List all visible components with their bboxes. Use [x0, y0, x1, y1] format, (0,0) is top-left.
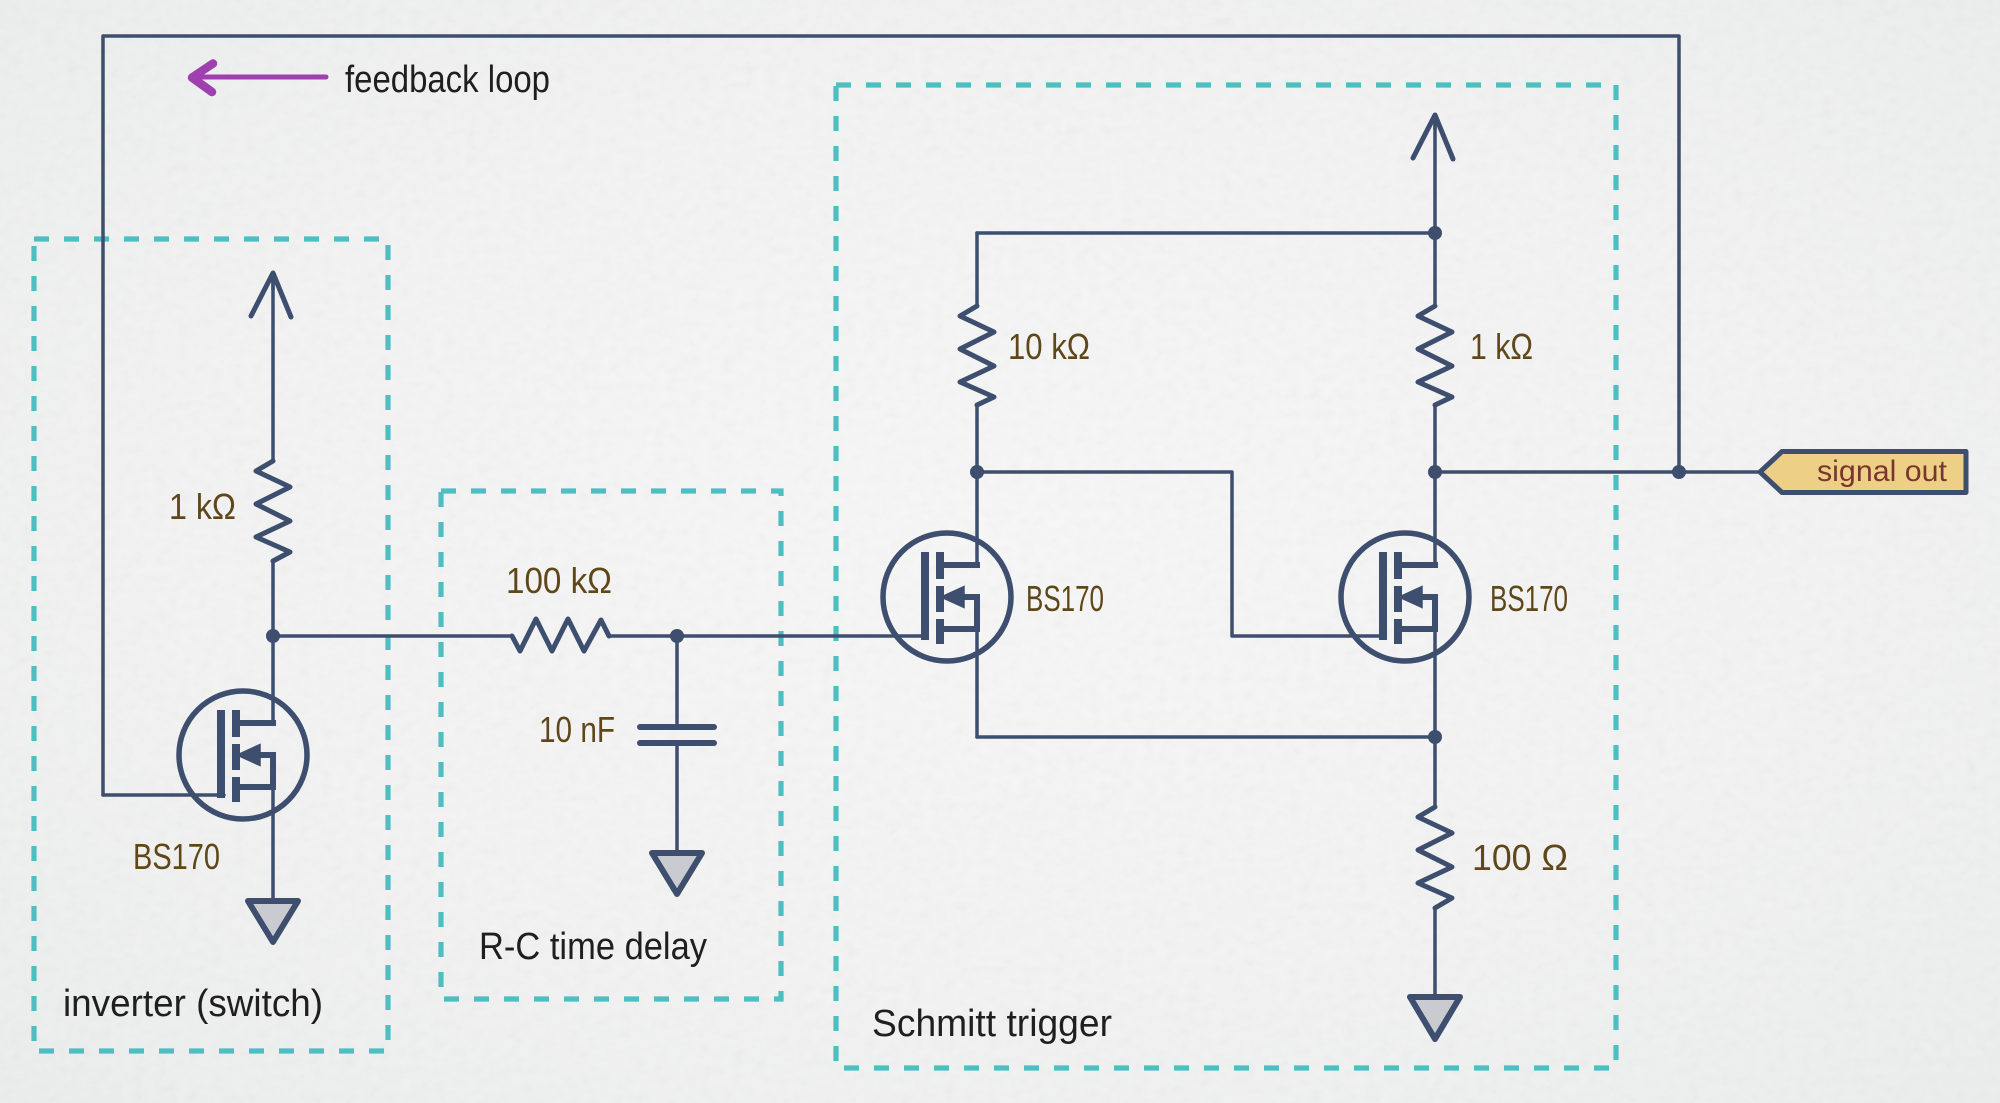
resistor 10 kΩ (Schmitt left): [960, 306, 994, 405]
resistor 1 kΩ (Schmitt right): [1418, 306, 1452, 405]
wire: M1 drain vertical: [975, 472, 979, 565]
wire: RC node to Schmitt gate 1: [677, 634, 922, 638]
resistor 100 Ω (Schmitt source): [1418, 807, 1452, 908]
svg-text:R-C time delay: R-C time delay: [479, 926, 707, 968]
svg-text:BS170: BS170: [1026, 578, 1104, 619]
wire: M2 source to 100R: [1433, 629, 1437, 807]
svg-text:10 nF: 10 nF: [539, 709, 615, 750]
wire: output node to signal out flag: [1435, 470, 1760, 474]
dashed box: Schmitt trigger: [836, 85, 1616, 1068]
resistor 100 kΩ (RC): [512, 619, 609, 651]
transistor BS170 (Schmitt M2): [1341, 533, 1469, 661]
svg-text:signal out: signal out: [1817, 455, 1948, 488]
wire: inverter resistor to drain: [271, 561, 275, 723]
svg-text:BS170: BS170: [133, 836, 220, 877]
capacitor 10 nF plates: [640, 727, 714, 743]
wire: RC resistor to cap node: [609, 634, 677, 638]
svg-text:Schmitt trigger: Schmitt trigger: [872, 1003, 1112, 1045]
wire: inverter VCC shaft: [271, 276, 275, 461]
wire: node A horizontal (inverter out to RC): [273, 634, 512, 638]
wire: 100R to ground: [1433, 908, 1437, 996]
wire: gate feed to inverter MOSFET: [103, 793, 224, 797]
junction: Schmitt VCC node: [1428, 226, 1442, 240]
junction: common source node: [1428, 730, 1442, 744]
svg-text:1 kΩ: 1 kΩ: [169, 486, 236, 527]
svg-text:feedback loop: feedback loop: [345, 59, 550, 101]
power arrow VCC (inverter): [251, 273, 291, 317]
wire: M2 drain vertical: [1433, 472, 1437, 565]
power arrow shaft tip (Schmitt): [1433, 115, 1437, 130]
signal out flag: [1760, 452, 1966, 493]
power arrow shaft tip (inverter): [271, 273, 275, 290]
svg-text:100 Ω: 100 Ω: [1472, 837, 1568, 878]
wire: M1 source vertical: [975, 629, 979, 737]
svg-text:100 kΩ: 100 kΩ: [506, 560, 612, 601]
transistor BS170 (inverter): [179, 691, 307, 819]
resistor 1 kΩ (inverter pull-up): [256, 461, 290, 561]
wire: cap bottom lead to ground: [675, 745, 679, 851]
wire: 1k branch upper: [1433, 233, 1437, 306]
junction: RC cap node: [670, 629, 684, 643]
svg-text:10 kΩ: 10 kΩ: [1008, 326, 1090, 367]
wire: 10k branch upper: [975, 233, 979, 306]
ground (inverter): [248, 901, 298, 942]
junction: M1 drain node: [970, 465, 984, 479]
ground (Schmitt): [1410, 997, 1460, 1039]
svg-text:inverter (switch): inverter (switch): [63, 983, 323, 1025]
transistor BS170 (Schmitt M1): [883, 533, 1011, 661]
wire: Schmitt top bus: [977, 231, 1435, 235]
wire: feedback loop top rail: [103, 36, 1679, 795]
wire: inverter source to ground: [271, 787, 275, 900]
svg-text:1 kΩ: 1 kΩ: [1470, 326, 1533, 367]
dashed box: inverter (switch): [34, 239, 388, 1051]
wire: cross-coupling from drain1 to gate2: [977, 472, 1381, 636]
wire: cap top lead: [675, 636, 679, 723]
wire: 1k branch lower to output node: [1433, 405, 1437, 472]
junction: inverter output node: [266, 629, 280, 643]
dashed box: R-C time delay: [441, 491, 781, 999]
feedback arrow (purple): [192, 64, 326, 93]
wire: Schmitt VCC shaft: [1433, 118, 1437, 233]
wire: 10k branch lower to drain node: [975, 405, 979, 472]
power arrow VCC (Schmitt): [1413, 115, 1453, 159]
junction: output node: [1428, 465, 1442, 479]
wire: common source bus: [977, 735, 1435, 739]
ground (RC): [652, 853, 702, 894]
junction: feedback tap node: [1672, 465, 1686, 479]
svg-text:BS170: BS170: [1490, 578, 1568, 619]
